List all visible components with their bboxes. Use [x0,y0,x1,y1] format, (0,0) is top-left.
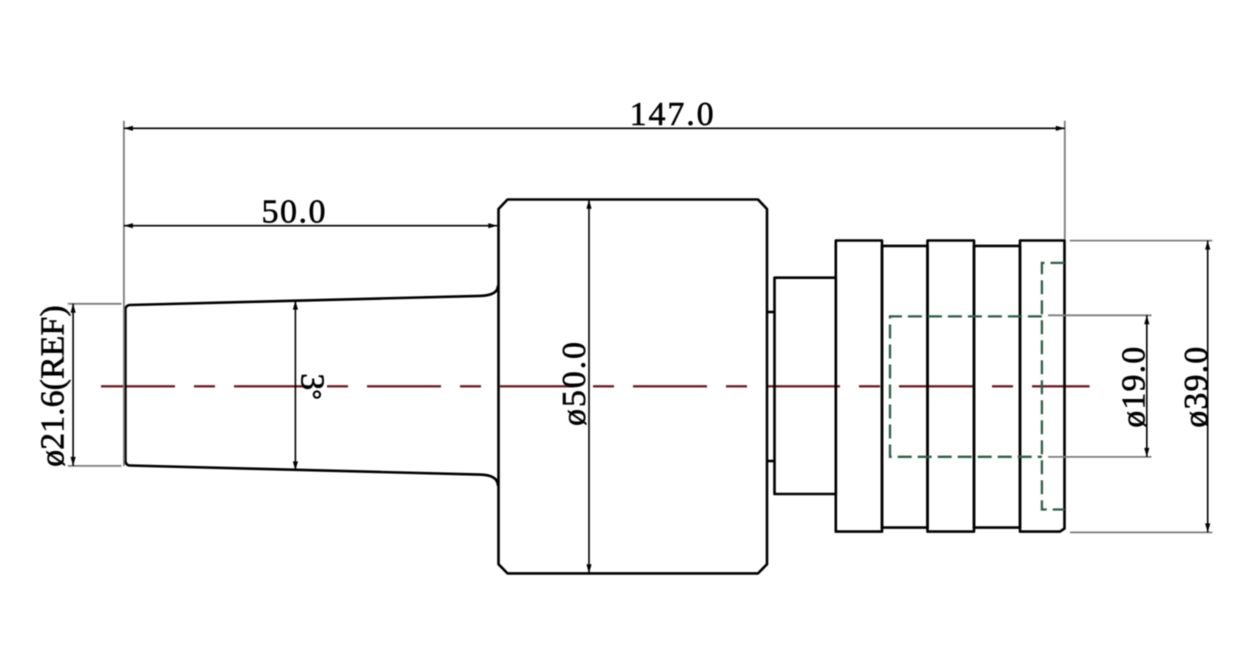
dim phi21.6 extension top [68,303,122,305]
rib 3 [1020,241,1065,532]
dim phi39 extension bottom [1070,531,1212,533]
dim 147.0 line [124,127,1065,129]
svg-text:3: 3 [293,373,330,390]
svg-text:ø39.0: ø39.0 [1178,347,1215,428]
dim phi39 line [1207,241,1209,533]
dim phi19 line [1146,315,1148,457]
dim phi19 extension top [1048,314,1152,316]
dim phi50 line [588,200,590,573]
groove 2 [974,246,1020,528]
centerline (red dash-dot axis) [101,385,1090,387]
hidden bore inner (green dashed, phi 19) [890,316,1042,456]
rib 1 [836,241,882,532]
svg-text:ø21.6(REF): ø21.6(REF) [34,305,71,467]
relief tick lower [767,460,775,463]
rib 2 [928,241,975,532]
dim phi19 extension bottom [1048,456,1152,458]
extension line right (x=1065) [1064,121,1066,240]
neck section [775,278,836,494]
dim phi39 extension top [1070,240,1213,242]
extension line left (x=124) [123,121,125,466]
dim phi21.6 line [72,304,74,466]
groove 1 [882,246,928,528]
svg-text:147.0: 147.0 [630,96,714,133]
dim 3deg line [294,301,296,471]
svg-text:ø19.0: ø19.0 [1116,347,1153,428]
taper section (left, 3 deg) [125,286,498,486]
main cylinder (phi 50) [499,200,768,574]
svg-text:ø50.0: ø50.0 [556,342,593,426]
dim phi21.6 extension bottom [68,465,122,467]
hidden bore outer (green dashed) [1042,263,1065,510]
svg-text:50.0: 50.0 [262,194,326,231]
dim 50.0 line [124,225,497,227]
relief tick upper [767,311,775,314]
